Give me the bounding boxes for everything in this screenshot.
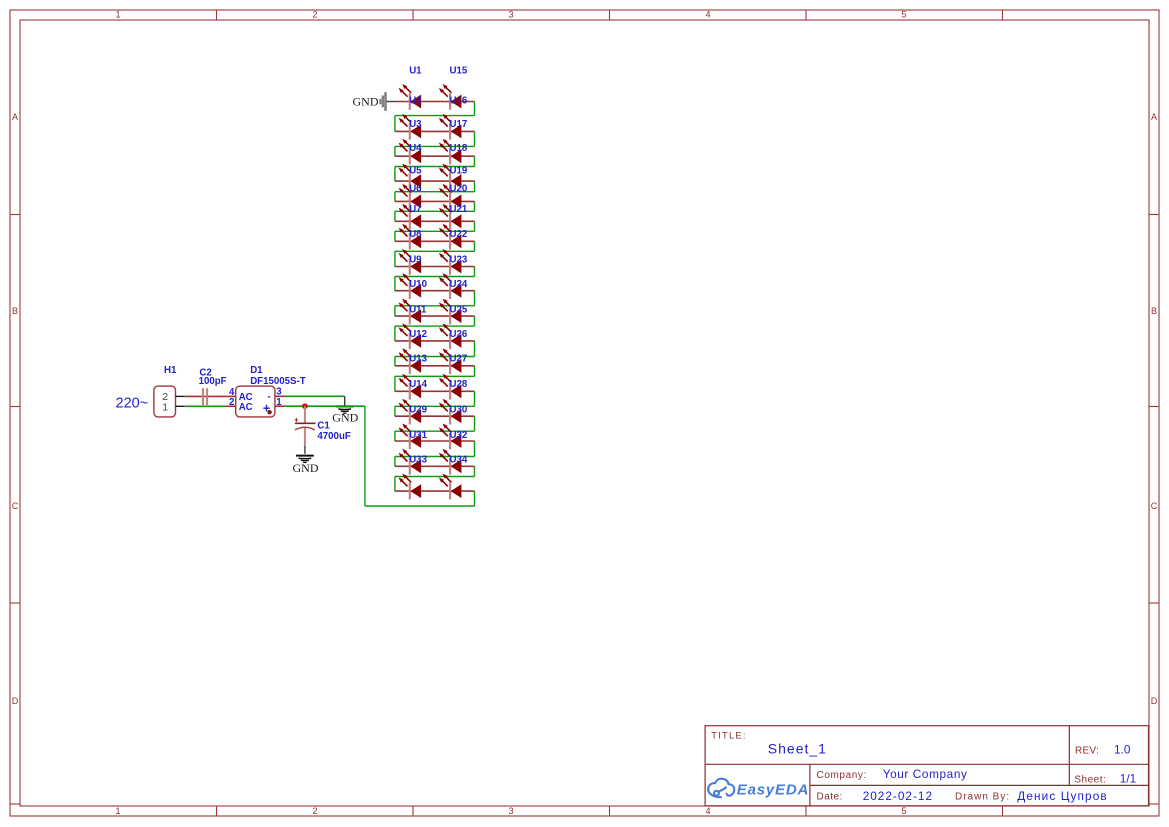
svg-text:100pF: 100pF: [199, 376, 227, 387]
svg-text:U34: U34: [450, 455, 468, 466]
LED U11: [399, 299, 427, 325]
svg-text:U21: U21: [450, 204, 468, 215]
svg-text:U10: U10: [409, 279, 427, 290]
LED U23: [439, 249, 468, 275]
svg-text:U4: U4: [409, 143, 422, 154]
svg-text:U15: U15: [450, 65, 468, 76]
svg-text:U6: U6: [409, 183, 422, 194]
wire LED row 5: [395, 200, 475, 202]
svg-text:U12: U12: [409, 329, 427, 340]
svg-text:REV:: REV:: [1075, 745, 1099, 756]
svg-text:U19: U19: [450, 166, 468, 177]
svg-text:1.0: 1.0: [1114, 742, 1131, 756]
LED U6: [399, 183, 423, 209]
svg-text:C: C: [12, 501, 19, 511]
wire row 2 to row 3: [395, 131, 475, 156]
svg-text:GND: GND: [332, 410, 358, 424]
wire row 7 to row 8: [395, 241, 475, 266]
wire LED row 3: [395, 155, 475, 157]
wire LED row 15: [395, 440, 475, 442]
svg-text:U26: U26: [450, 329, 468, 340]
LED U12: [399, 323, 427, 349]
wire LED row 1: [396, 101, 475, 103]
wire row 9 to row 10: [395, 291, 475, 316]
wire LED row 10: [395, 315, 475, 317]
wire row 15 to row 16: [395, 441, 475, 466]
svg-text:U8: U8: [409, 229, 422, 240]
junction at C1 tap: [302, 403, 308, 409]
LED U31: [399, 424, 428, 450]
svg-text:U9: U9: [409, 254, 422, 265]
LED U5: [399, 164, 423, 190]
svg-text:U27: U27: [450, 354, 468, 365]
capacitor C1 4700uF: [294, 406, 351, 454]
bridge rectifier D1 DF15005S-T: [236, 365, 306, 417]
wire row 3 to row 4: [395, 156, 475, 181]
LED U21: [439, 204, 468, 230]
svg-text:U22: U22: [450, 229, 468, 240]
wire row 16 to row 17: [395, 466, 475, 491]
H1 pin 2: [162, 391, 185, 403]
D1 pin 1: [275, 397, 285, 408]
svg-text:GND: GND: [353, 94, 379, 108]
svg-text:Sheet_1: Sheet_1: [768, 741, 827, 757]
connector H1: [154, 365, 177, 417]
svg-text:U20: U20: [450, 183, 468, 194]
LED U32: [439, 424, 467, 450]
svg-text:Drawn By:: Drawn By:: [955, 791, 1010, 802]
LED U29: [399, 399, 428, 425]
svg-text:U31: U31: [409, 430, 427, 441]
svg-text:D: D: [12, 696, 19, 706]
svg-text:1: 1: [162, 401, 168, 413]
LED U17: [439, 114, 467, 140]
LED U19: [439, 164, 468, 190]
H1 pin 1: [162, 401, 185, 413]
wire LED row 16: [395, 465, 475, 467]
LED U24: [439, 273, 468, 299]
svg-text:1: 1: [115, 10, 120, 20]
LED U33: [399, 449, 428, 475]
svg-text:EasyEDA: EasyEDA: [737, 782, 809, 799]
LED U27: [439, 348, 467, 374]
wire row 5 to row 6: [395, 201, 475, 221]
svg-text:D1: D1: [250, 365, 263, 376]
svg-text:U1: U1: [409, 65, 422, 76]
svg-text:U18: U18: [450, 143, 468, 154]
LED U18: [439, 139, 468, 165]
wire LED row 7: [395, 240, 475, 242]
ground GND at D1 pin3: [332, 406, 358, 424]
wire LED row 4: [395, 180, 475, 182]
svg-text:B: B: [12, 306, 18, 316]
svg-text:5: 5: [901, 10, 906, 20]
svg-text:A: A: [12, 112, 18, 122]
LED (unlabeled left): [399, 474, 422, 500]
svg-text:C: C: [1151, 501, 1158, 511]
svg-text:Денис Цупров: Денис Цупров: [1017, 789, 1107, 803]
svg-text:TITLE:: TITLE:: [711, 730, 746, 741]
svg-text:U25: U25: [450, 304, 468, 315]
LED U8: [399, 224, 423, 250]
svg-text:U33: U33: [409, 455, 427, 466]
svg-text:U23: U23: [450, 254, 468, 265]
svg-text:1: 1: [115, 806, 120, 816]
wire D1 pin3 to ground: [285, 396, 345, 406]
LED (unlabeled right): [439, 474, 462, 500]
LED U13: [399, 348, 428, 374]
svg-text:U7: U7: [409, 204, 421, 215]
svg-text:A: A: [1151, 112, 1157, 122]
svg-text:U5: U5: [409, 166, 422, 177]
svg-text:5: 5: [901, 806, 906, 816]
wire row 11 to row 12: [395, 341, 475, 366]
wire H1 pin2 to D1 pin4 through C2: [185, 395, 236, 397]
svg-text:4: 4: [705, 10, 710, 20]
wire row 4 to row 5: [395, 181, 475, 201]
LED U26: [439, 323, 468, 349]
svg-text:U3: U3: [409, 119, 422, 130]
LED U22: [439, 224, 467, 250]
svg-text:U13: U13: [409, 354, 427, 365]
wire LED string return to D1 positive output: [365, 406, 475, 506]
wire LED row 9: [395, 290, 475, 292]
svg-text:B: B: [1151, 306, 1157, 316]
LED U34: [439, 449, 468, 475]
svg-text:U11: U11: [409, 304, 427, 315]
LED U28: [439, 374, 468, 400]
LED U15 (overlapping U16): [439, 65, 468, 109]
svg-text:DF15005S-T: DF15005S-T: [250, 376, 306, 387]
LED U30: [439, 399, 467, 425]
svg-text:220~: 220~: [116, 396, 149, 412]
wire row 6 to row 7: [395, 221, 475, 241]
LED U9: [399, 249, 423, 275]
wire LED row 6: [395, 220, 475, 222]
wire row 12 to row 13: [395, 366, 475, 392]
wire LED row 17: [395, 490, 475, 492]
svg-text:3: 3: [508, 806, 513, 816]
wire LED row 14: [395, 415, 475, 417]
LED U3: [399, 114, 423, 140]
wire LED row 8: [395, 266, 475, 268]
svg-text:3: 3: [508, 10, 513, 20]
ground GND below C1: [293, 456, 319, 475]
svg-text:U16: U16: [450, 95, 468, 106]
svg-text:2: 2: [312, 10, 317, 20]
ground GND at LED string start: [353, 92, 397, 111]
svg-text:4: 4: [705, 806, 710, 816]
svg-text:Company:: Company:: [817, 770, 867, 781]
wire LED row 11: [395, 340, 475, 342]
svg-text:2022-02-12: 2022-02-12: [863, 789, 933, 803]
D1 pin 3: [275, 387, 285, 398]
LED U10: [399, 273, 427, 299]
svg-text:U29: U29: [409, 405, 427, 416]
wire row 13 to row 14: [395, 391, 475, 416]
svg-text:Date:: Date:: [817, 791, 843, 802]
wire LED row 2: [395, 130, 475, 132]
svg-text:2: 2: [312, 806, 317, 816]
LED U20: [439, 183, 467, 209]
LED U4: [399, 139, 423, 165]
wire row 10 to row 11: [395, 316, 475, 341]
wire D1 pin1 positive output: [285, 405, 365, 407]
svg-text:U28: U28: [450, 379, 468, 390]
wire row 8 to row 9: [395, 267, 475, 291]
svg-text:2: 2: [229, 397, 234, 408]
capacitor C2 100pF: [199, 367, 227, 405]
wire row 14 to row 15: [395, 416, 475, 441]
svg-text:U32: U32: [450, 430, 468, 441]
svg-text:D: D: [1151, 696, 1158, 706]
svg-text:U17: U17: [450, 119, 468, 130]
svg-text:U24: U24: [450, 279, 468, 290]
svg-text:4700uF: 4700uF: [317, 431, 350, 442]
svg-text:1/1: 1/1: [1120, 772, 1136, 786]
wire row 1 to row 2: [395, 102, 475, 132]
LED U14: [399, 374, 428, 400]
LED U1 (overlapping U2): [399, 65, 423, 109]
svg-text:AC: AC: [239, 402, 253, 413]
svg-text:GND: GND: [293, 461, 319, 475]
LED U7: [399, 204, 422, 230]
wire LED row 13: [395, 390, 475, 392]
wire H1 pin1 to D1 pin2: [185, 405, 236, 407]
svg-text:H1: H1: [164, 365, 177, 376]
svg-text:Your Company: Your Company: [883, 767, 968, 781]
svg-text:Sheet:: Sheet:: [1074, 775, 1106, 786]
svg-text:U2: U2: [409, 95, 421, 106]
svg-text:U30: U30: [450, 405, 468, 416]
wire LED row 12: [395, 365, 475, 367]
LED U25: [439, 299, 468, 325]
svg-text:U14: U14: [409, 379, 427, 390]
